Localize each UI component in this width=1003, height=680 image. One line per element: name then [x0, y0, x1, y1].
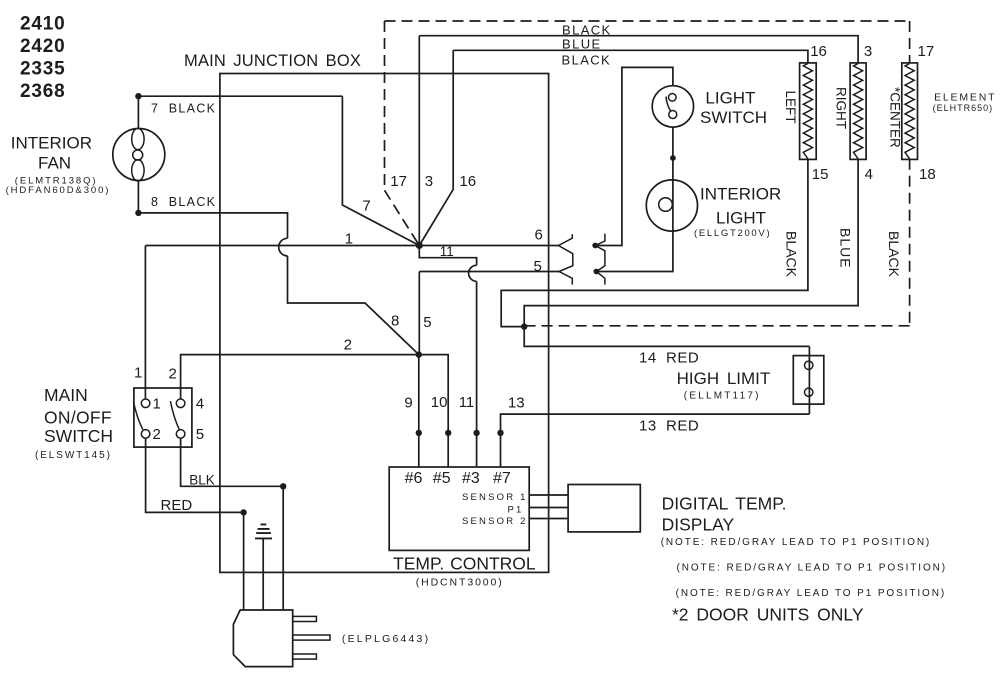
switch lever left — [133, 401, 142, 430]
dashed wire: left run — [384, 21, 386, 190]
fan hub — [133, 150, 143, 160]
wire 11: down to temp control #3 — [476, 281, 478, 467]
sensor lead 2 — [529, 518, 568, 520]
svg-text:#3: #3 — [462, 470, 480, 487]
svg-text:7 BLACK: 7 BLACK — [151, 102, 216, 116]
wire 16: junction diagonal up — [419, 50, 453, 245]
svg-text:2420: 2420 — [20, 36, 65, 57]
svg-text:13: 13 — [508, 395, 525, 412]
svg-text:9: 9 — [404, 395, 412, 412]
svg-text:7: 7 — [362, 198, 370, 215]
element LEFT zigzag — [803, 64, 812, 159]
svg-text:DISPLAY: DISPLAY — [662, 515, 735, 535]
svg-text:P1: P1 — [507, 504, 523, 515]
svg-text:(ELPLG6443): (ELPLG6443) — [342, 633, 430, 645]
temp control pin labels — [405, 470, 511, 487]
node: temp control #5 — [445, 430, 451, 436]
svg-text:(ELSWT145): (ELSWT145) — [35, 450, 112, 461]
svg-text:(ELLMT117): (ELLMT117) — [684, 391, 761, 402]
wire 5: row to connector — [419, 271, 559, 273]
node: RED to plug — [240, 509, 246, 515]
svg-text:6: 6 — [535, 227, 543, 244]
wire: left element pin 15 down, left, down to node — [501, 159, 808, 327]
dashed wire: right run down to center element pin 17 — [909, 21, 911, 63]
svg-text:2335: 2335 — [20, 59, 65, 80]
svg-text:MAIN: MAIN — [44, 385, 88, 405]
light switch terminal top — [669, 94, 677, 102]
wire 11: junction step right — [419, 246, 476, 266]
svg-text:(ELHTR650): (ELHTR650) — [933, 103, 994, 113]
svg-text:BLUE: BLUE — [838, 228, 854, 269]
fan blade top — [132, 128, 144, 149]
wire 13: temp control #7 up and right to high limit — [501, 414, 810, 467]
interior light inner circle — [659, 198, 673, 212]
svg-text:(HDFAN60D&300): (HDFAN60D&300) — [6, 185, 111, 196]
svg-text:ON/OFF: ON/OFF — [44, 408, 112, 428]
svg-text:(NOTE: RED/GRAY LEAD TO P1 POS: (NOTE: RED/GRAY LEAD TO P1 POSITION) — [677, 563, 947, 574]
svg-text:#7: #7 — [493, 470, 511, 487]
wire 14 RED: right element pin 4 down, left, down to node, to high limit — [524, 159, 858, 347]
wire 1: down to main switch terminal 1 — [144, 246, 146, 400]
svg-text:14 RED: 14 RED — [639, 350, 699, 367]
connector half female — [559, 234, 573, 284]
svg-text:TEMP. CONTROL: TEMP. CONTROL — [393, 554, 536, 574]
svg-text:2: 2 — [169, 366, 177, 383]
node: fan bottom — [135, 210, 141, 216]
svg-text:BLUE: BLUE — [562, 37, 602, 52]
svg-text:1: 1 — [134, 365, 142, 382]
high limit terminal top — [805, 361, 813, 369]
svg-text:SENSOR 1: SENSOR 1 — [462, 492, 528, 503]
svg-text:BLACK: BLACK — [562, 23, 612, 38]
junction wire number labels — [134, 43, 936, 412]
svg-text:5: 5 — [423, 314, 431, 331]
node: BLK to plug — [280, 483, 286, 489]
svg-text:8: 8 — [391, 313, 399, 330]
wire 8: down, right, diagonal into junction B — [288, 256, 419, 355]
node: junction B — [416, 351, 422, 357]
wire 6: connector to light switch feed — [595, 67, 673, 245]
light switch lever — [666, 97, 671, 112]
plug prong 3 — [293, 654, 317, 659]
svg-text:3: 3 — [864, 43, 872, 60]
ground symbol — [255, 524, 272, 538]
dashed wire 17 circuit: top run — [385, 20, 910, 22]
element CENTER box — [902, 63, 918, 159]
svg-text:8 BLACK: 8 BLACK — [151, 195, 216, 209]
wire 8: hop over wire 1 — [279, 238, 288, 256]
element RIGHT zigzag — [854, 64, 863, 159]
interior light circle — [646, 180, 697, 231]
svg-text:1: 1 — [153, 396, 161, 413]
svg-text:5: 5 — [196, 426, 204, 443]
svg-text:LIGHT: LIGHT — [705, 89, 755, 108]
sensor lead 1 — [529, 494, 568, 496]
main on/off switch box — [134, 388, 192, 447]
light switch terminal bottom — [669, 111, 677, 119]
svg-text:FAN: FAN — [38, 153, 71, 172]
svg-text:#6: #6 — [405, 470, 423, 487]
svg-text:17: 17 — [918, 43, 935, 60]
svg-text:LIGHT: LIGHT — [716, 209, 766, 228]
svg-text:4: 4 — [196, 396, 204, 413]
svg-text:RED: RED — [161, 497, 193, 514]
wire 2: from switch terminal 4 up and right to junction B — [181, 355, 419, 399]
ground stem — [262, 538, 264, 610]
plug ELPLG6443 body — [233, 610, 292, 667]
connector half male — [595, 234, 605, 285]
svg-text:15: 15 — [812, 166, 829, 183]
wire 10: junction B right and down to temp control #5 — [419, 355, 448, 467]
svg-text:1: 1 — [345, 231, 353, 248]
element RIGHT box — [850, 63, 866, 159]
plug prong 1 — [293, 616, 317, 621]
main junction box — [220, 74, 549, 573]
temp control sensor labels — [462, 492, 528, 527]
svg-text:16: 16 — [459, 173, 476, 190]
svg-text:17: 17 — [390, 173, 407, 190]
wire RED: switch terminal 2 down to plug — [146, 438, 244, 610]
svg-text:2368: 2368 — [20, 81, 65, 102]
svg-text:#5: #5 — [433, 470, 451, 487]
node: connector pin 6 — [592, 243, 598, 249]
wire: high limit through-line — [808, 346, 810, 414]
wire: top BLACK bus to right element pin 3 — [419, 36, 858, 63]
svg-text:11: 11 — [459, 394, 475, 411]
svg-text:10: 10 — [431, 394, 448, 411]
svg-text:5: 5 — [534, 258, 542, 275]
svg-text:2410: 2410 — [20, 14, 65, 35]
svg-text:18: 18 — [919, 166, 936, 183]
wire: fan top 7 BLACK horizontal — [138, 95, 342, 97]
svg-text:*2 DOOR UNITS ONLY: *2 DOOR UNITS ONLY — [672, 605, 864, 625]
wire 5: down to junction B — [418, 272, 420, 355]
high limit box — [793, 356, 824, 405]
node: light switch to interior light — [670, 155, 676, 161]
wire: BLUE bus to left element pin 16 — [453, 50, 808, 63]
svg-text:BLACK: BLACK — [784, 231, 800, 278]
svg-text:HIGH LIMIT: HIGH LIMIT — [677, 369, 771, 388]
switch terminal 2 — [141, 430, 150, 439]
switch terminal 5 — [176, 430, 185, 439]
wire 9: junction B down to temp control #6 — [418, 355, 420, 467]
svg-text:13 RED: 13 RED — [639, 418, 699, 435]
fan wire stubs — [137, 96, 139, 213]
svg-text:(NOTE: RED/GRAY LEAD TO P1 POS: (NOTE: RED/GRAY LEAD TO P1 POSITION) — [661, 537, 931, 548]
switch terminal 1 — [141, 399, 150, 408]
node: temp control #7 — [497, 430, 503, 436]
svg-text:(NOTE: RED/GRAY LEAD TO P1 POS: (NOTE: RED/GRAY LEAD TO P1 POSITION) — [676, 588, 946, 599]
wire: fan bottom 8 BLACK horizontal — [138, 213, 287, 238]
svg-text:BLK: BLK — [189, 473, 215, 488]
svg-text:DIGITAL TEMP.: DIGITAL TEMP. — [662, 494, 787, 514]
svg-text:SENSOR 2: SENSOR 2 — [462, 516, 528, 527]
svg-text:(ELLGT200V): (ELLGT200V) — [694, 228, 771, 239]
svg-text:INTERIOR: INTERIOR — [11, 133, 92, 152]
svg-text:*CENTER: *CENTER — [888, 87, 903, 148]
svg-text:BLACK: BLACK — [562, 53, 612, 68]
svg-text:(HDCNT3000): (HDCNT3000) — [416, 577, 504, 589]
node: fan top — [135, 93, 141, 99]
wire 3: junction up to BLACK bus — [418, 36, 420, 246]
high limit terminal bottom — [805, 388, 813, 396]
dashed wire: bottom run to node at x=524 — [524, 325, 909, 327]
svg-text:11: 11 — [440, 244, 454, 259]
svg-text:SWITCH: SWITCH — [44, 426, 113, 446]
svg-text:LEFT: LEFT — [783, 91, 798, 124]
svg-text:BLACK: BLACK — [886, 231, 902, 278]
switch pin numbers — [153, 396, 205, 444]
svg-text:2: 2 — [344, 337, 352, 354]
plug prong 2 — [293, 635, 330, 640]
wire 1 / 6 row through junction — [145, 245, 558, 247]
node: temp control #3 — [473, 430, 479, 436]
element LEFT box — [800, 63, 817, 159]
interior fan — [113, 129, 165, 181]
svg-text:3: 3 — [425, 173, 433, 190]
svg-text:ELEMENT: ELEMENT — [934, 92, 996, 104]
wire: light switch bottom through interior light to connector — [596, 127, 673, 271]
node: element commons at dashed joint — [521, 323, 527, 329]
node: main junction point — [416, 242, 423, 249]
switch terminal 4 — [176, 399, 185, 408]
node: connector pin 5 — [594, 269, 600, 275]
light switch circle — [652, 86, 693, 127]
sensor lead P1 — [529, 507, 568, 509]
element CENTER zigzag — [905, 64, 914, 159]
dashed wire: diagonal 17 to junction — [385, 190, 420, 245]
wire 7: vertical and diagonal into junction — [342, 96, 419, 245]
svg-text:2: 2 — [153, 426, 161, 443]
fan blade bottom — [132, 160, 144, 181]
wire BLK: switch terminal 5 down to plug — [181, 438, 284, 610]
model numbers — [20, 14, 65, 103]
switch lever right — [170, 401, 179, 430]
svg-text:RIGHT: RIGHT — [834, 87, 849, 129]
dashed wire: center element pin 18 down — [909, 159, 911, 326]
svg-text:4: 4 — [865, 166, 873, 183]
wire 11: hop over wire 5 — [469, 265, 477, 281]
temp control box — [389, 467, 529, 550]
svg-text:SWITCH: SWITCH — [700, 108, 767, 127]
svg-text:INTERIOR: INTERIOR — [700, 185, 781, 204]
svg-text:MAIN JUNCTION BOX: MAIN JUNCTION BOX — [184, 52, 361, 70]
node: temp control #6 — [416, 430, 422, 436]
svg-text:16: 16 — [810, 43, 827, 60]
digital display box — [568, 485, 640, 532]
